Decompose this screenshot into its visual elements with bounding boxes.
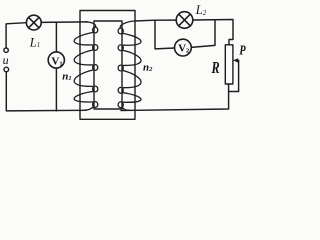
wire L2 to right corner and down to R top bbox=[193, 20, 233, 45]
wire junction to voltmeter V1 bbox=[55, 22, 57, 52]
svg-text:V2: V2 bbox=[178, 43, 189, 55]
wire V1 to bottom bbox=[55, 68, 57, 111]
svg-text:n1: n1 bbox=[62, 71, 71, 83]
lamp L1 bbox=[26, 15, 41, 30]
voltmeter V2 bbox=[175, 39, 192, 56]
wire secondary top to L2 junction bbox=[135, 19, 177, 22]
svg-text:n2: n2 bbox=[143, 61, 153, 73]
wire from L1 to primary winding bbox=[41, 21, 87, 24]
wire top-left from source to lamp L1 bbox=[6, 23, 26, 48]
svg-text:V1: V1 bbox=[51, 55, 62, 67]
resistor R bbox=[225, 45, 233, 84]
wire R bottom to circuit bottom bbox=[121, 84, 229, 111]
wire V2 right to corner up bbox=[191, 20, 215, 47]
svg-text:L2: L2 bbox=[195, 3, 207, 17]
terminal u lower bbox=[4, 67, 9, 72]
voltmeter V1 bbox=[48, 52, 64, 68]
transformer core inner rectangle bbox=[94, 21, 122, 109]
secondary winding n2 bbox=[118, 21, 141, 110]
svg-text:P: P bbox=[239, 42, 246, 58]
transformer core outer rectangle bbox=[80, 11, 135, 120]
terminal u upper bbox=[4, 48, 8, 52]
primary winding n1 bbox=[74, 22, 98, 110]
svg-text:u: u bbox=[3, 53, 9, 67]
slider P arrow bbox=[237, 59, 239, 61]
slider P tail wire bbox=[229, 60, 239, 91]
svg-text:R: R bbox=[211, 59, 220, 77]
wire bottom-left from lower terminal bbox=[6, 72, 86, 111]
svg-text:L1: L1 bbox=[29, 35, 40, 49]
junction wire down to V2 branch bbox=[155, 20, 175, 49]
lamp L2 bbox=[176, 12, 193, 29]
